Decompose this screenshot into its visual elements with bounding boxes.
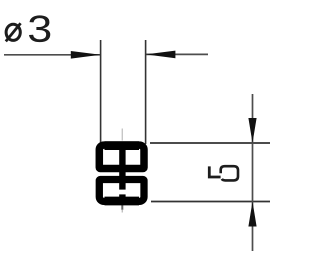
arrowhead bottom pointing up (5) xyxy=(248,202,256,227)
dimension leader line right (ø3) xyxy=(146,53,208,55)
extension line right (ø3) xyxy=(145,40,147,144)
centerline below part faint tail xyxy=(121,210,123,213)
value label 3 of diameter dimension xyxy=(29,15,50,42)
extension line left (ø3) xyxy=(100,40,102,144)
extension line bottom (5) xyxy=(151,201,270,203)
part body upper ring xyxy=(99,145,144,168)
extension line top (5) xyxy=(150,142,270,144)
centerline below part xyxy=(121,204,123,210)
part center slot line upper segment xyxy=(119,147,125,190)
part bottom edge thickening xyxy=(105,197,140,206)
part center slot line lower segment xyxy=(119,194,125,201)
arrowhead top pointing down (5) xyxy=(248,118,256,143)
part body lower ring xyxy=(99,180,144,202)
part top edge thickening xyxy=(105,141,140,150)
centerline above part xyxy=(121,129,123,141)
dimension leader line left (ø3) xyxy=(4,54,101,56)
diameter symbol of "ø 3" label xyxy=(6,23,21,41)
arrowhead left pointing right (ø3) xyxy=(71,51,101,59)
arrowhead right pointing left (ø3) xyxy=(146,51,176,59)
value label 5 of height dimension (rotated) xyxy=(209,166,238,180)
dimension line vertical (5) xyxy=(252,94,254,251)
